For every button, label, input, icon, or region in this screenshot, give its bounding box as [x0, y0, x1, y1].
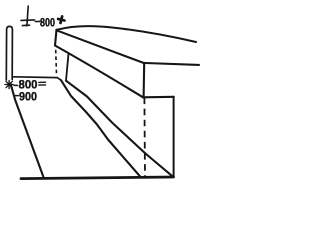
svg-text:800: 800 [40, 17, 55, 29]
svg-text:900: 900 [19, 91, 37, 103]
svg-text:800: 800 [19, 80, 38, 92]
